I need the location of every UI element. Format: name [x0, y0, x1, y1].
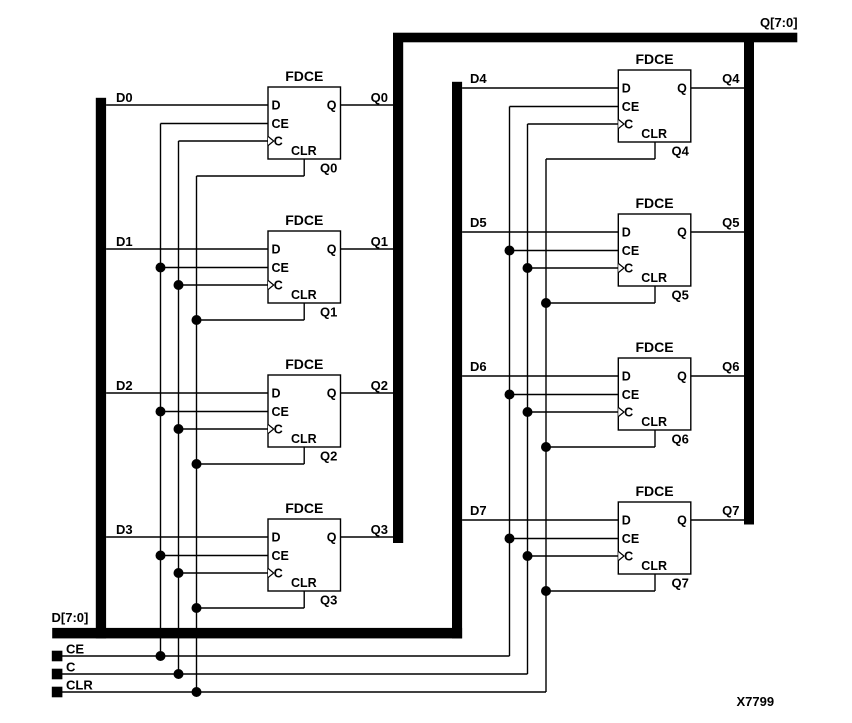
junction CE wire tap for U8 — [505, 534, 515, 544]
svg-text:C: C — [66, 660, 76, 675]
wire C clock input stub to U8 — [528, 555, 619, 557]
svg-text:C: C — [274, 279, 283, 293]
svg-text:D3: D3 — [116, 522, 133, 537]
input pin square C — [52, 669, 63, 680]
svg-text:Q6: Q6 — [722, 359, 739, 374]
wire Q7 output to Q[7:0] bus — [691, 519, 744, 521]
svg-text:Q: Q — [327, 531, 337, 545]
svg-text:Q7: Q7 — [722, 503, 739, 518]
svg-text:CLR: CLR — [66, 678, 93, 693]
wire Q0 feedback from U1 CLR region (vertical stub) — [303, 159, 305, 176]
svg-text:D7: D7 — [470, 503, 487, 518]
svg-text:D: D — [272, 243, 281, 257]
svg-text:C: C — [274, 423, 283, 437]
svg-text:Q6: Q6 — [672, 432, 689, 447]
svg-text:D5: D5 — [470, 215, 487, 230]
junction CLR wire tap for U2 feedback — [192, 315, 202, 325]
bus Q[7:0] left vertical segment (Q0-Q3 taps) — [393, 34, 403, 544]
wire D7 input from D[7:0] bus — [462, 519, 618, 521]
junction CLR wire tap for U6 feedback — [541, 298, 551, 308]
wire D5 input from D[7:0] bus — [462, 231, 618, 233]
svg-text:Q0: Q0 — [371, 90, 388, 105]
wire Q7 feedback from U8 CLR region (vertical stub) — [654, 574, 656, 591]
wire CE input stub to U8 — [510, 538, 619, 540]
wire CLR vertical (right column) — [545, 159, 547, 692]
junction C wire tap for U6 — [523, 263, 533, 273]
svg-text:Q1: Q1 — [371, 234, 388, 249]
svg-text:CE: CE — [622, 532, 639, 546]
junction C wire / C rail — [174, 669, 184, 679]
wire C vertical (left column) — [178, 141, 180, 674]
wire Q2 output to Q[7:0] bus — [341, 392, 394, 394]
junction CE wire tap for U4 — [156, 551, 166, 561]
svg-text:X7799: X7799 — [737, 694, 775, 709]
svg-text:C: C — [624, 118, 633, 132]
svg-text:Q: Q — [327, 243, 337, 257]
junction C wire tap for U8 — [523, 551, 533, 561]
svg-text:CE: CE — [272, 261, 289, 275]
svg-text:D6: D6 — [470, 359, 487, 374]
input pin square CE — [52, 651, 63, 662]
wire Q4 output to Q[7:0] bus — [691, 87, 744, 89]
wire Q3 feedback horizontal to CLR wire — [197, 607, 305, 609]
wire CE input stub to U1 — [161, 123, 269, 125]
wire D1 input from D[7:0] bus — [106, 248, 268, 250]
svg-text:FDCE: FDCE — [285, 500, 323, 516]
svg-text:Q[7:0]: Q[7:0] — [760, 15, 798, 30]
wire CE input stub to U6 — [510, 250, 619, 252]
svg-text:Q3: Q3 — [371, 522, 388, 537]
svg-text:CE: CE — [272, 549, 289, 563]
wire C clock input stub to U3 — [179, 428, 269, 430]
svg-text:CE: CE — [66, 642, 84, 657]
bus D[7:0] bottom horizontal segment — [52, 628, 462, 639]
wire C clock input stub to U5 — [528, 123, 619, 125]
wire Q0 output to Q[7:0] bus — [341, 104, 394, 106]
svg-text:Q0: Q0 — [320, 161, 337, 176]
wire CE input stub to U4 — [161, 555, 269, 557]
svg-text:FDCE: FDCE — [285, 68, 323, 84]
junction C wire tap for U2 — [174, 280, 184, 290]
wire CE input stub to U5 — [510, 106, 619, 108]
junction CE wire tap for U2 — [156, 263, 166, 273]
wire Q4 feedback horizontal to CLR wire — [546, 158, 655, 160]
wire D4 input from D[7:0] bus — [462, 87, 618, 89]
wire Q5 output to Q[7:0] bus — [691, 231, 744, 233]
input pin square CLR — [52, 687, 63, 698]
wire D3 input from D[7:0] bus — [106, 536, 268, 538]
wire Q3 feedback from U4 CLR region (vertical stub) — [303, 591, 305, 608]
svg-text:FDCE: FDCE — [285, 212, 323, 228]
wire Q4 feedback from U5 CLR region (vertical stub) — [654, 142, 656, 159]
svg-text:D: D — [272, 99, 281, 113]
wire Q2 feedback from U3 CLR region (vertical stub) — [303, 447, 305, 464]
wire Q3 output to Q[7:0] bus — [341, 536, 394, 538]
wire CE input stub to U3 — [161, 411, 269, 413]
bus Q[7:0] right vertical segment (Q4-Q7 taps) — [744, 34, 754, 525]
svg-text:D: D — [622, 370, 631, 384]
wire Q2 feedback horizontal to CLR wire — [197, 463, 305, 465]
svg-text:FDCE: FDCE — [635, 51, 673, 67]
svg-text:CE: CE — [622, 244, 639, 258]
svg-text:FDCE: FDCE — [635, 483, 673, 499]
bus D[7:0] left vertical segment (D0-D3 taps) — [96, 98, 106, 639]
wire C vertical (right column) — [527, 124, 529, 674]
svg-text:CLR: CLR — [641, 271, 667, 285]
junction CLR wire tap for U4 feedback — [192, 603, 202, 613]
wire CE vertical (left column) — [160, 124, 162, 657]
svg-text:CLR: CLR — [291, 288, 317, 302]
junction CLR wire tap for U3 feedback — [192, 459, 202, 469]
svg-text:Q: Q — [327, 387, 337, 401]
wire Q5 feedback from U6 CLR region (vertical stub) — [654, 286, 656, 303]
wire CE input stub to U7 — [510, 394, 619, 396]
junction CE wire tap for U3 — [156, 407, 166, 417]
svg-text:Q5: Q5 — [722, 215, 739, 230]
svg-text:D[7:0]: D[7:0] — [52, 610, 89, 625]
wire C clock input stub to U1 — [179, 140, 269, 142]
wire CE input stub to U2 — [161, 267, 269, 269]
svg-text:FDCE: FDCE — [635, 339, 673, 355]
flip-flop U1 FDCE body — [268, 68, 341, 159]
wire CE rail horizontal — [62, 655, 510, 657]
wire Q7 feedback horizontal to CLR wire — [546, 590, 655, 592]
svg-text:CE: CE — [272, 117, 289, 131]
flip-flop U7 FDCE body — [618, 339, 691, 430]
svg-text:Q2: Q2 — [320, 449, 337, 464]
svg-text:C: C — [624, 262, 633, 276]
svg-text:D: D — [272, 387, 281, 401]
flip-flop U3 FDCE body — [268, 356, 341, 447]
svg-text:CLR: CLR — [641, 415, 667, 429]
wire CLR rail horizontal — [62, 691, 546, 693]
wire Q5 feedback horizontal to CLR wire — [546, 302, 655, 304]
svg-text:FDCE: FDCE — [285, 356, 323, 372]
svg-text:C: C — [624, 550, 633, 564]
wire C rail horizontal — [62, 673, 528, 675]
flip-flop U6 FDCE body — [618, 195, 691, 286]
wire D0 input from D[7:0] bus — [106, 104, 268, 106]
svg-text:Q: Q — [327, 99, 337, 113]
wire Q6 feedback horizontal to CLR wire — [546, 446, 655, 448]
svg-text:Q: Q — [677, 226, 687, 240]
wire Q0 feedback horizontal to CLR wire — [197, 175, 305, 177]
junction CE wire tap for U7 — [505, 390, 515, 400]
svg-text:Q: Q — [677, 514, 687, 528]
wire C clock input stub to U2 — [179, 284, 269, 286]
junction CE wire tap for U6 — [505, 246, 515, 256]
wire C clock input stub to U4 — [179, 572, 269, 574]
svg-text:D: D — [622, 82, 631, 96]
svg-text:CE: CE — [272, 405, 289, 419]
svg-text:FDCE: FDCE — [635, 195, 673, 211]
wire D2 input from D[7:0] bus — [106, 392, 268, 394]
wire CE vertical (right column) — [509, 107, 511, 657]
svg-text:Q4: Q4 — [672, 144, 690, 159]
svg-text:D: D — [272, 531, 281, 545]
flip-flop U8 FDCE body — [618, 483, 691, 574]
bus Q[7:0] top horizontal segment — [393, 33, 797, 43]
svg-text:CLR: CLR — [291, 576, 317, 590]
svg-text:CE: CE — [622, 100, 639, 114]
flip-flop U5 FDCE body — [618, 51, 691, 142]
svg-text:CLR: CLR — [641, 559, 667, 573]
wire D6 input from D[7:0] bus — [462, 375, 618, 377]
flip-flop U2 FDCE body — [268, 212, 341, 303]
svg-text:CE: CE — [622, 388, 639, 402]
svg-text:D: D — [622, 514, 631, 528]
svg-text:CLR: CLR — [291, 144, 317, 158]
wire Q1 output to Q[7:0] bus — [341, 248, 394, 250]
flip-flop U4 FDCE body — [268, 500, 341, 591]
svg-text:CLR: CLR — [291, 432, 317, 446]
wire Q6 feedback from U7 CLR region (vertical stub) — [654, 430, 656, 447]
svg-text:Q7: Q7 — [672, 576, 689, 591]
svg-text:D4: D4 — [470, 71, 487, 86]
svg-text:C: C — [274, 567, 283, 581]
junction CLR wire / CLR rail — [192, 687, 202, 697]
wire Q1 feedback horizontal to CLR wire — [197, 319, 305, 321]
junction C wire tap for U3 — [174, 424, 184, 434]
svg-text:D0: D0 — [116, 90, 133, 105]
svg-text:Q4: Q4 — [722, 71, 740, 86]
svg-text:Q: Q — [677, 370, 687, 384]
svg-text:D: D — [622, 226, 631, 240]
junction CLR wire tap for U7 feedback — [541, 442, 551, 452]
junction C wire tap for U4 — [174, 568, 184, 578]
wire C clock input stub to U6 — [528, 267, 619, 269]
junction CE wire / CE rail — [156, 651, 166, 661]
wire Q6 output to Q[7:0] bus — [691, 375, 744, 377]
wire Q1 feedback from U2 CLR region (vertical stub) — [303, 303, 305, 320]
bus D[7:0] middle vertical segment (D4-D7 taps) — [452, 82, 462, 639]
svg-text:Q2: Q2 — [371, 378, 388, 393]
svg-text:C: C — [274, 135, 283, 149]
wire C clock input stub to U7 — [528, 411, 619, 413]
svg-text:Q1: Q1 — [320, 305, 337, 320]
svg-text:Q: Q — [677, 82, 687, 96]
junction C wire tap for U7 — [523, 407, 533, 417]
svg-text:D1: D1 — [116, 234, 133, 249]
svg-text:Q5: Q5 — [672, 288, 689, 303]
svg-text:Q3: Q3 — [320, 593, 337, 608]
wire CLR vertical (left column) — [196, 176, 198, 692]
svg-text:D2: D2 — [116, 378, 133, 393]
svg-text:CLR: CLR — [641, 127, 667, 141]
junction CLR wire tap for U8 feedback — [541, 586, 551, 596]
svg-text:C: C — [624, 406, 633, 420]
